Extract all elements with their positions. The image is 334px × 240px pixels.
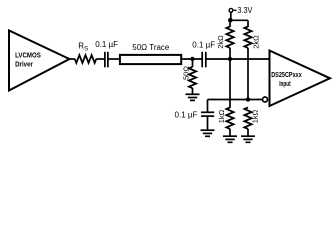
wire R50 to ground (192, 88, 194, 94)
capacitor C1 0.1 uF (104, 52, 106, 68)
wire C2 to receiver input (upper line) (206, 58, 270, 60)
resistor R 50 ohm shunt (189, 67, 196, 88)
wire trace to C2 (182, 58, 203, 60)
wire lower line to C3 (207, 100, 209, 113)
svg-text:1kΩ: 1kΩ (217, 109, 226, 123)
wire driver output to RS (69, 58, 75, 60)
receiver U2 DS25CPxxx triangle (270, 51, 331, 107)
ground (below 50 ohm) (186, 94, 200, 100)
wire R3 to ground (229, 129, 231, 136)
svg-text:Input: Input (279, 81, 291, 88)
svg-text:0.1 µF: 0.1 µF (175, 110, 198, 119)
wire rail horizontal (230, 19, 248, 21)
svg-text:2kΩ: 2kΩ (252, 35, 261, 49)
svg-text:0.1 µF: 0.1 µF (192, 40, 215, 49)
wire junction down to R 50 (192, 59, 194, 67)
capacitor C2 0.1 uF (201, 52, 203, 68)
resistor R3 1k (left pull-down) (226, 108, 233, 129)
resistor R2 2k (right pull-up) (244, 27, 251, 48)
wire supply down to rail junction (230, 12, 232, 20)
wire R4 to ground (247, 129, 249, 136)
svg-text:50Ω: 50Ω (182, 66, 191, 80)
resistor R4 1k (right pull-down) (244, 108, 251, 129)
ground (below right 1k) (241, 136, 255, 142)
inverting input bubble (263, 97, 268, 102)
wire C1 to trace (108, 58, 119, 60)
wire C3 to ground (207, 116, 209, 130)
svg-text:50Ω Trace: 50Ω Trace (132, 43, 170, 52)
svg-text:0.1 µF: 0.1 µF (95, 40, 118, 49)
svg-text:LVCMOS: LVCMOS (15, 52, 41, 59)
svg-text:2kΩ: 2kΩ (216, 35, 225, 49)
node dot left 2k junction on upper line (228, 57, 232, 61)
ground (below left 1k) (223, 136, 237, 142)
node rail junction dot (228, 18, 233, 23)
node junction dot at 50 ohm tap (190, 57, 194, 61)
wire rail to left 2k (229, 20, 231, 27)
wire RS to C1 (96, 58, 104, 60)
transmission line 50 ohm trace (120, 55, 181, 64)
driver U1 LVCMOS Driver triangle (9, 31, 69, 91)
node dot lower line junction (246, 97, 250, 101)
wire lower line (208, 99, 263, 101)
svg-text:1kΩ: 1kΩ (251, 109, 260, 123)
wire left 1k column from upper line down (229, 59, 231, 108)
svg-text:Driver: Driver (15, 61, 33, 68)
svg-text:DS25CPxxx: DS25CPxxx (271, 72, 302, 79)
power terminal 3.3V (229, 8, 233, 12)
ground (below C3) (201, 130, 215, 136)
svg-text:3.3V: 3.3V (237, 6, 253, 15)
resistor RS (75, 55, 96, 63)
wire R2 down across upper line to lower line (247, 48, 249, 100)
capacitor C3 0.1 uF (bypass) (201, 111, 214, 113)
wire R1 to upper line (229, 48, 231, 59)
wire rail to right 2k (247, 20, 249, 27)
resistor R1 2k (left pull-up) (226, 27, 233, 48)
